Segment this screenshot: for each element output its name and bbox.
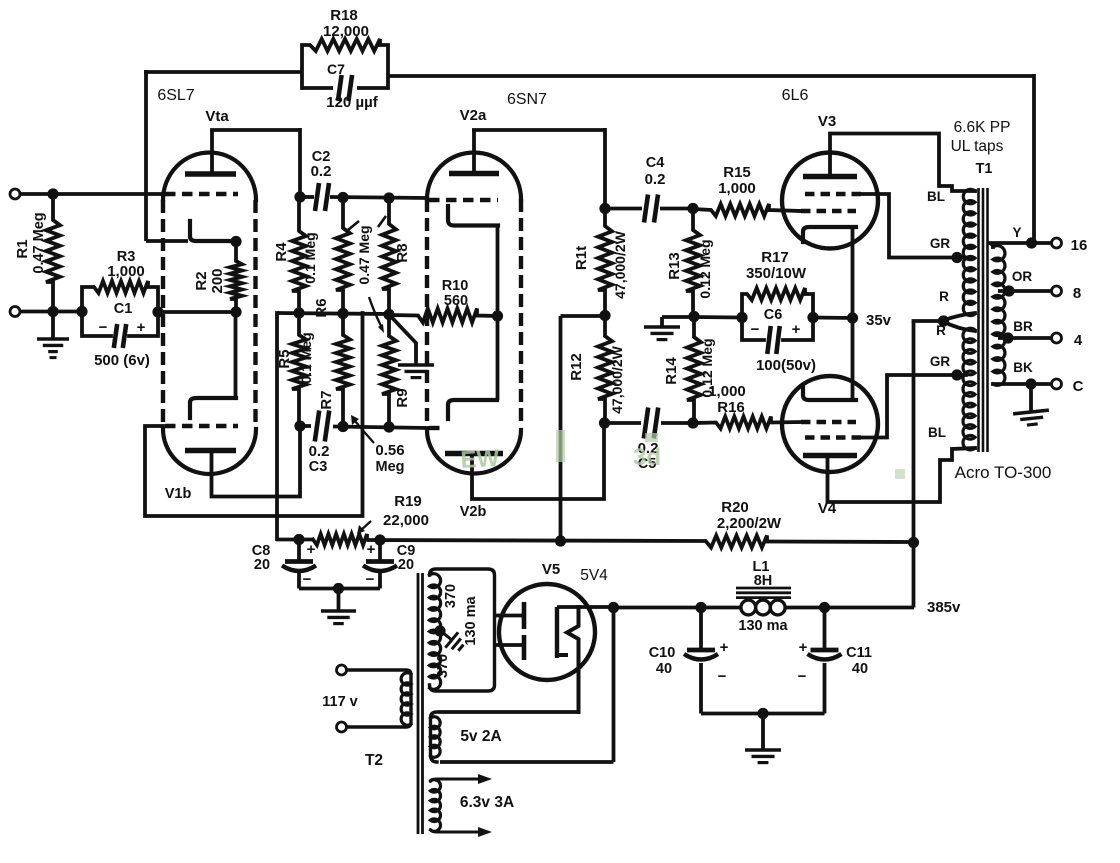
node dot C2 right R6 top <box>337 192 348 203</box>
node dot R center tap <box>938 315 949 326</box>
resistor R15 1,000 grid stopper <box>693 204 801 216</box>
node dot 385v at V5 <box>608 602 619 613</box>
node dot R4 R5 mid <box>293 307 304 318</box>
tube V3 grid dashes <box>801 209 856 213</box>
svg-text:16: 16 <box>1071 237 1088 254</box>
svg-text:20: 20 <box>254 557 270 573</box>
svg-text:BR: BR <box>1013 319 1033 334</box>
capacitor C8 20 <box>297 540 301 562</box>
tube V2 envelope top arc <box>427 153 521 199</box>
svg-text:−: − <box>303 571 312 588</box>
svg-text:BK: BK <box>1013 360 1033 375</box>
watermark green blotches <box>460 430 905 479</box>
svg-text:R5: R5 <box>276 349 293 368</box>
svg-text:0.2: 0.2 <box>645 171 666 188</box>
wire secondary BR tap <box>998 336 1052 340</box>
wire C3 row grid of V2b <box>300 424 311 428</box>
wire 6.3v bottom arrow <box>431 830 479 832</box>
svg-text:370: 370 <box>443 584 459 608</box>
tube V4 grid dashes <box>801 420 856 424</box>
wire input lower <box>19 310 82 314</box>
svg-text:R: R <box>936 323 946 338</box>
svg-text:2,200/2W: 2,200/2W <box>717 515 782 532</box>
svg-text:R7: R7 <box>318 390 335 409</box>
transformer T1 primary upper coil <box>963 189 975 315</box>
ground below C8 C9 <box>337 589 341 611</box>
wire left drop to B+ row <box>275 313 279 539</box>
wire V3 cathode down to 35v node <box>851 227 855 318</box>
svg-text:Vta: Vta <box>205 108 229 125</box>
svg-text:V5: V5 <box>542 561 560 578</box>
svg-text:R13: R13 <box>666 252 683 280</box>
wire V5 plate stubs <box>495 614 523 618</box>
node dot B+ right <box>908 537 919 548</box>
resistor R13 0.12 Meg <box>686 209 700 317</box>
tube V1 envelope top arc <box>163 153 256 201</box>
wire feedback left vertical to V1a cathode <box>144 70 148 241</box>
svg-text:GR: GR <box>930 236 951 251</box>
wire V5 filament top to 385v node <box>557 605 614 609</box>
capacitor C6 on box bottom <box>742 318 764 341</box>
svg-text:12,000: 12,000 <box>323 23 369 40</box>
tube V4 screen dashes <box>805 435 861 439</box>
ground at BK tap <box>1029 384 1033 411</box>
svg-text:BL: BL <box>928 425 946 440</box>
node dot R19 left C8 <box>293 534 304 545</box>
node dot GR upper tap <box>951 252 962 263</box>
node dot 35v <box>847 312 858 323</box>
svg-text:−: − <box>798 668 807 685</box>
svg-text:6SL7: 6SL7 <box>157 87 194 104</box>
inductor L1 coil <box>741 600 756 615</box>
tube V1b grid dashed line <box>165 424 238 428</box>
tube V1a cathode <box>190 221 238 241</box>
resistor R6 <box>336 197 350 313</box>
wire V2a cathode down to R10 <box>496 226 500 317</box>
transformer T1 core <box>977 188 980 452</box>
node dot C6 box right <box>807 312 818 323</box>
node dot GR lower tap <box>951 369 962 380</box>
svg-text:R18: R18 <box>330 7 358 24</box>
wire C6 to 35v node <box>813 316 853 320</box>
wire top grid row with C2 <box>300 195 314 199</box>
resistor R20 2,200/2W <box>706 536 767 548</box>
resistor R17 on box top <box>742 288 813 318</box>
svg-text:40: 40 <box>852 661 868 677</box>
node dot OR tap <box>1003 285 1014 296</box>
resistor R10 560 cathode <box>390 309 498 323</box>
svg-text:6L6: 6L6 <box>782 87 809 104</box>
svg-text:−: − <box>718 668 727 685</box>
svg-text:R14: R14 <box>663 357 680 385</box>
node dot input upper at R1 top <box>47 188 58 199</box>
svg-text:−: − <box>99 319 108 336</box>
capacitor C7 on box bottom side <box>302 86 333 90</box>
input terminal J1 upper <box>10 189 20 199</box>
svg-text:8H: 8H <box>754 573 773 589</box>
input terminal J2 lower <box>10 307 20 317</box>
wire V2b plate to R12 bottom node <box>472 423 604 499</box>
wire box right to cathode node <box>158 310 236 314</box>
tube V1a plate bar <box>185 171 236 176</box>
svg-text:R1: R1 <box>14 239 31 258</box>
svg-text:0.1 Meg: 0.1 Meg <box>298 332 314 383</box>
svg-text:0.2: 0.2 <box>309 443 330 460</box>
svg-text:GR: GR <box>930 354 951 369</box>
tube V5 filament <box>555 607 559 658</box>
tube V5 plate bar <box>522 602 527 629</box>
svg-text:47,000/2W: 47,000/2W <box>612 230 628 298</box>
svg-text:C4: C4 <box>646 155 665 171</box>
tube V1a grid dashed line <box>165 192 238 196</box>
svg-text:C6: C6 <box>764 307 783 323</box>
node dot R19 right C9 <box>374 534 385 545</box>
resistor R4 0.1 Meg <box>292 197 306 313</box>
wire secondary OR tap <box>998 289 1052 293</box>
node dot C5 right R14 bottom <box>687 417 698 428</box>
node dot BR tap <box>1002 332 1013 343</box>
svg-text:UL taps: UL taps <box>951 138 1004 155</box>
wire V1b plate to C3 node <box>212 426 301 497</box>
svg-text:+: + <box>792 321 801 338</box>
wire V3 screen to GR tap <box>861 194 966 258</box>
tube V3 screen dashes <box>805 192 861 196</box>
svg-text:V1b: V1b <box>165 486 192 502</box>
svg-text:0.47 Meg: 0.47 Meg <box>356 225 372 284</box>
node dot box right <box>152 306 163 317</box>
svg-text:R9: R9 <box>394 388 411 407</box>
tube V2a plate bar <box>449 171 499 176</box>
capacitor C9 20 <box>378 540 382 561</box>
ground cathode mid <box>398 365 434 378</box>
transformer T2 primary coil <box>346 670 411 727</box>
svg-text:20: 20 <box>398 557 414 573</box>
wire C10 C11 bottom row <box>701 712 825 716</box>
node dot R8 R9 mid <box>383 309 394 320</box>
wire feedback right long top wire <box>388 74 1034 78</box>
wire C4 row <box>605 207 642 211</box>
svg-text:4: 4 <box>1074 332 1083 349</box>
transformer T1 primary lower coil <box>963 328 975 450</box>
wire R13 node to C6 box <box>694 315 742 319</box>
resistor R16 1,000 grid stopper <box>693 417 801 429</box>
svg-text:R2: R2 <box>193 271 210 290</box>
svg-text:C7: C7 <box>327 61 345 77</box>
svg-text:370: 370 <box>435 654 451 678</box>
svg-text:200: 200 <box>209 268 226 293</box>
svg-text:OR: OR <box>1012 269 1033 284</box>
wire V3 plate to T1 BL top <box>830 134 975 192</box>
tube V1b plate bar <box>185 448 236 453</box>
svg-text:130 ma: 130 ma <box>738 618 788 634</box>
capacitor C11 40 <box>823 608 827 649</box>
svg-text:1,000: 1,000 <box>708 383 746 400</box>
svg-text:6SN7: 6SN7 <box>507 91 547 108</box>
transformer T2 6.3v winding <box>431 780 441 832</box>
resistor R5 0.1 Meg <box>292 313 306 426</box>
svg-text:5v 2A: 5v 2A <box>460 728 501 745</box>
svg-text:Y: Y <box>1012 225 1021 240</box>
tube V1 envelope dashed sides <box>161 200 165 422</box>
svg-text:8: 8 <box>1073 285 1081 302</box>
svg-text:0.56: 0.56 <box>375 442 404 459</box>
node dot C6 box left <box>736 312 747 323</box>
svg-text:5V4: 5V4 <box>580 567 608 584</box>
wire V4 screen to GR tap <box>861 375 966 438</box>
node dot V1a cathode R2 top <box>230 236 241 247</box>
svg-text:0.12 Meg: 0.12 Meg <box>697 239 713 298</box>
svg-text:−: − <box>751 321 760 338</box>
svg-text:560: 560 <box>444 293 468 309</box>
tube V3 envelope circle <box>782 153 878 249</box>
svg-text:0.47 Meg: 0.47 Meg <box>31 212 47 273</box>
wire V2a plate up to C4 node <box>472 130 476 174</box>
resistor R7 <box>336 314 350 427</box>
terminal C <box>1052 379 1062 389</box>
svg-text:T2: T2 <box>365 752 383 769</box>
svg-text:R15: R15 <box>723 164 751 181</box>
node dot R11 R12 <box>599 310 610 321</box>
capacitor C5 0.2 <box>644 408 648 439</box>
tube V4 cathode <box>803 385 856 400</box>
svg-text:350/10W: 350/10W <box>746 265 807 282</box>
wire V4 cathode up to 35v node <box>851 318 855 400</box>
svg-text:R: R <box>939 289 949 304</box>
wire feedback into V1a cathode <box>146 239 188 243</box>
capacitor C10 40 <box>699 608 703 649</box>
svg-text:0.1 Meg: 0.1 Meg <box>302 232 318 283</box>
svg-text:385v: 385v <box>927 599 961 616</box>
svg-text:R8: R8 <box>394 243 411 262</box>
node dot R10 right <box>492 310 503 321</box>
transformer T1 secondary coil <box>993 246 1005 386</box>
tube V2 envelope dashed sides <box>425 199 429 424</box>
node dot R6 R7 mid <box>337 308 348 319</box>
tube V2b grid dashes <box>429 426 446 430</box>
tube V2b plate bar <box>445 451 503 456</box>
tube V2b cathode <box>448 400 497 419</box>
node dot input lower at R1 bottom <box>47 306 58 317</box>
wire V5 to 5v winding top <box>440 710 579 714</box>
svg-text:117 v: 117 v <box>322 694 358 710</box>
resistor R14 0.12 Meg <box>687 317 701 424</box>
transformer T2 HV secondary coil <box>430 569 495 691</box>
wire V1a plate lead up and to C2 <box>210 130 214 174</box>
tube V4 envelope circle <box>782 376 878 472</box>
node dot R2 bottom <box>230 306 241 317</box>
wire R13 bottom row to ground <box>662 315 694 319</box>
tube V4 plate bar <box>803 453 857 458</box>
svg-text:V3: V3 <box>818 113 836 130</box>
ground below input junction <box>51 312 55 339</box>
svg-text:EW: EW <box>460 445 500 474</box>
terminal 8 <box>1052 286 1062 296</box>
svg-text:R10: R10 <box>442 278 469 294</box>
node dot B+ tap phase splitter <box>555 535 566 546</box>
wire B+ row y540 <box>276 538 313 542</box>
capacitor C4 0.2 <box>644 195 648 223</box>
svg-text:22,000: 22,000 <box>383 512 429 529</box>
wire 385v down to 5v winding bottom <box>612 608 616 763</box>
resistor R3 on top of box <box>82 281 158 311</box>
input terminal 117v upper <box>337 665 347 675</box>
svg-text:6.6K PP: 6.6K PP <box>954 119 1011 136</box>
node dot R13 bottom <box>688 311 699 322</box>
transformer T2 5v winding <box>431 712 438 762</box>
svg-text:C10: C10 <box>649 645 676 661</box>
capacitor C2 0.2 coupling <box>315 183 319 211</box>
tube V3 plate bar <box>803 174 857 179</box>
ground below filter <box>761 714 765 750</box>
wire secondary top Y tap <box>988 243 1052 247</box>
svg-text:6.3v 3A: 6.3v 3A <box>460 794 514 811</box>
ground HV center tap tilted <box>435 623 468 655</box>
tube V2a grid dashed line <box>429 198 498 202</box>
node dot BK tap <box>1025 378 1036 389</box>
tube V5 envelope circle <box>499 584 595 680</box>
svg-text:R16: R16 <box>717 399 745 416</box>
resistor R8 <box>382 198 396 315</box>
node dot R12 bottom <box>599 417 610 428</box>
resistor R11 47,000/2W <box>598 209 612 316</box>
svg-text:40: 40 <box>656 661 672 677</box>
resistor R18 box top side with zigzag <box>302 39 388 88</box>
resistor R9 <box>382 315 396 427</box>
wire V4 plate to T1 BL bottom <box>828 448 976 502</box>
node dot box left <box>76 306 87 317</box>
wire V1b grid out left and down to R6 node <box>145 313 363 516</box>
svg-text:+: + <box>307 541 316 558</box>
svg-text:BL: BL <box>927 189 945 204</box>
wire B+ from center tap down <box>912 321 916 608</box>
svg-text:+: + <box>137 319 146 336</box>
svg-text:R12: R12 <box>568 353 585 381</box>
tube V2a cathode <box>448 206 498 226</box>
wire 6.3v top arrow <box>431 779 479 781</box>
node dot filter ground <box>757 708 768 719</box>
node dot L1 right <box>819 602 830 613</box>
node dot L1 left <box>695 602 706 613</box>
svg-text:V2b: V2b <box>460 504 487 520</box>
resistor R12 47,000/2W <box>598 316 612 424</box>
svg-text:+: + <box>367 541 376 558</box>
tube V1b cathode <box>190 398 236 418</box>
terminal 16 <box>1052 238 1062 248</box>
svg-text:35v: 35v <box>866 312 892 329</box>
node dot R7 bottom <box>337 421 348 432</box>
wire diagonal to ground from R8 R9 node <box>389 315 416 365</box>
input terminal 117v lower <box>337 722 347 732</box>
svg-text:+: + <box>799 639 808 656</box>
node dot C3 left <box>294 420 305 431</box>
svg-text:R20: R20 <box>721 499 749 516</box>
resistor R1 0.47 Meg vertical <box>46 194 60 311</box>
svg-text:V2a: V2a <box>460 107 487 124</box>
wire V1b cathode up to node <box>234 312 238 398</box>
resistor R19 22,000 <box>313 534 367 545</box>
svg-text:Acro TO-300: Acro TO-300 <box>955 463 1052 482</box>
tube V1 envelope bottom arc <box>163 429 256 474</box>
svg-text:R17: R17 <box>761 249 789 266</box>
svg-text:100(50v): 100(50v) <box>756 357 816 374</box>
wire C8 C9 bottom row <box>299 587 380 591</box>
node dot C2 left <box>294 191 305 202</box>
svg-text:130 ma: 130 ma <box>463 595 479 645</box>
wire 385v row <box>614 606 743 610</box>
wire V2b cathode up to R10 <box>496 317 500 400</box>
ground at R13 bottom <box>660 317 664 326</box>
svg-text:0.2: 0.2 <box>311 163 332 180</box>
svg-text:Meg: Meg <box>376 459 405 475</box>
resistor R2 200 cathode resistor <box>230 242 242 313</box>
node dot C8 C9 ground <box>333 583 344 594</box>
svg-text:120 µµf: 120 µµf <box>326 94 378 111</box>
svg-text:47,000/2W: 47,000/2W <box>609 345 625 413</box>
svg-text:C1: C1 <box>114 301 133 317</box>
svg-text:500 (6v): 500 (6v) <box>94 352 150 369</box>
tube V3 cathode <box>803 227 856 242</box>
wire T1 center taps to B+ <box>943 313 975 321</box>
transformer T2 core <box>417 573 420 834</box>
svg-text:C11: C11 <box>846 645 872 661</box>
svg-text:+: + <box>720 639 729 656</box>
svg-text:−: − <box>366 571 375 588</box>
svg-text:C: C <box>1073 378 1084 395</box>
wire R11 bottom to B+ drop <box>561 314 606 318</box>
wire secondary BK tap <box>993 382 1052 386</box>
wire input upper to grid V1a <box>19 192 164 196</box>
node dot R9 bottom <box>383 421 394 432</box>
svg-text:1,000: 1,000 <box>107 263 145 280</box>
capacitor C1 on bottom of box <box>82 312 111 336</box>
svg-text:R4: R4 <box>273 242 290 262</box>
terminal 4 <box>1052 333 1062 343</box>
svg-text:R19: R19 <box>394 493 422 510</box>
node dot Y tap <box>1026 237 1037 248</box>
node dot HV center tap <box>434 625 445 636</box>
node dot C4 left <box>599 203 610 214</box>
wire middle junction row <box>277 313 390 314</box>
svg-text:R1t: R1t <box>573 246 590 270</box>
inductor L1 core bars <box>736 587 791 590</box>
tube V2 envelope bottom arc <box>427 430 521 474</box>
node dot R8 top <box>383 192 394 203</box>
wire C5 row <box>604 421 641 425</box>
svg-text:1,000: 1,000 <box>718 180 756 197</box>
node dot C4 right <box>687 203 698 214</box>
capacitor C3 0.2 coupling <box>315 411 319 442</box>
svg-text:C3: C3 <box>309 459 328 475</box>
svg-text:T1: T1 <box>976 161 993 177</box>
svg-text:3d: 3d <box>633 444 661 471</box>
